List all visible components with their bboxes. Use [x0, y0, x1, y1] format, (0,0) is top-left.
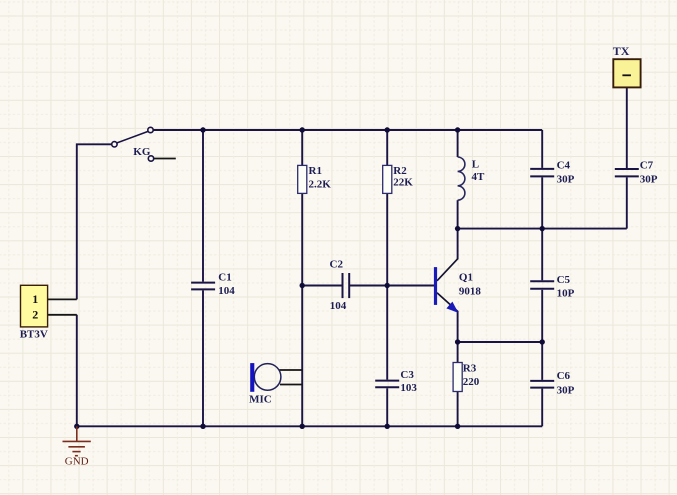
- svg-text:C2: C2: [330, 259, 344, 271]
- svg-text:4T: 4T: [472, 171, 486, 183]
- svg-text:30P: 30P: [557, 174, 575, 186]
- svg-text:1: 1: [32, 292, 38, 306]
- svg-text:L: L: [472, 159, 479, 171]
- svg-text:MIC: MIC: [249, 394, 272, 406]
- svg-text:C7: C7: [640, 160, 654, 172]
- svg-text:R1: R1: [309, 165, 322, 177]
- svg-text:30P: 30P: [557, 384, 575, 396]
- svg-text:10P: 10P: [557, 287, 575, 299]
- svg-text:30P: 30P: [640, 174, 658, 186]
- svg-text:BT3V: BT3V: [20, 328, 48, 340]
- svg-text:9018: 9018: [459, 285, 482, 297]
- svg-text:KG: KG: [133, 146, 151, 158]
- svg-text:GND: GND: [65, 456, 89, 468]
- svg-text:R3: R3: [463, 363, 477, 375]
- svg-text:C5: C5: [557, 274, 571, 286]
- svg-text:104: 104: [218, 285, 235, 297]
- svg-text:TX: TX: [613, 44, 630, 58]
- svg-text:Q1: Q1: [459, 272, 473, 284]
- svg-text:C6: C6: [557, 370, 571, 382]
- svg-text:C4: C4: [557, 160, 571, 172]
- svg-text:R2: R2: [393, 165, 407, 177]
- svg-text:22K: 22K: [393, 176, 413, 188]
- svg-text:220: 220: [463, 376, 480, 388]
- svg-text:2: 2: [32, 308, 38, 322]
- svg-text:C3: C3: [400, 369, 414, 381]
- svg-text:2.2K: 2.2K: [309, 179, 332, 191]
- svg-text:104: 104: [330, 300, 347, 312]
- svg-text:103: 103: [400, 382, 417, 394]
- svg-text:C1: C1: [218, 272, 231, 284]
